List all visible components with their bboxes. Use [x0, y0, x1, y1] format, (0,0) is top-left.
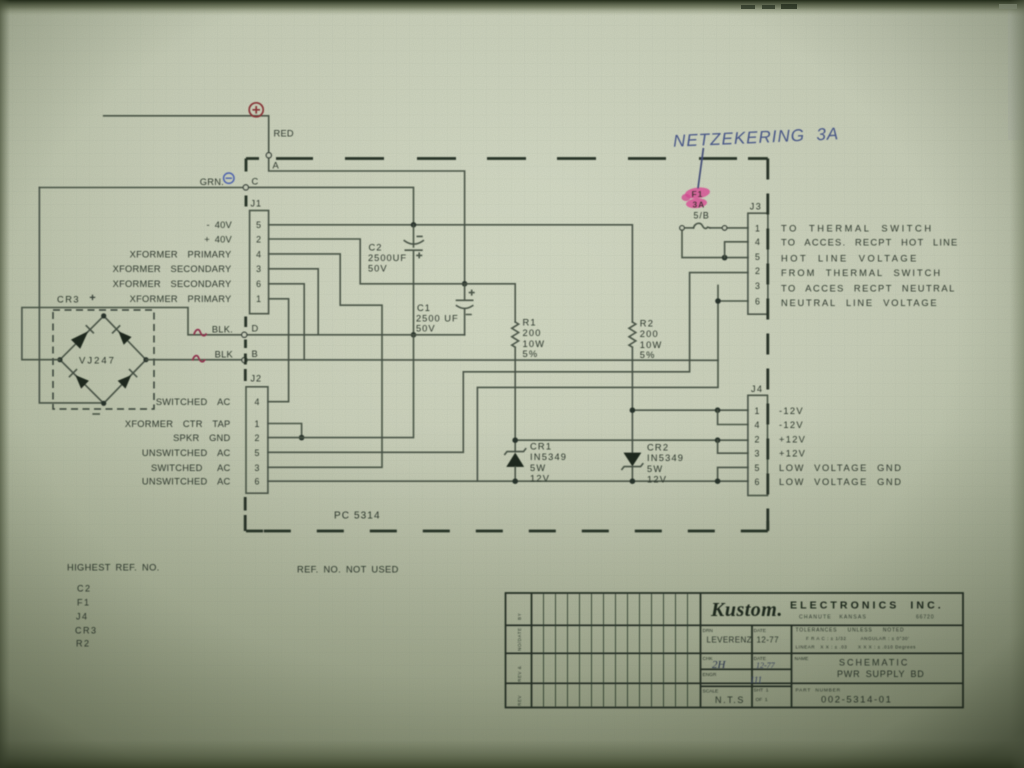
- diode CR3 upper-left: [71, 326, 93, 349]
- connector J1: [250, 199, 269, 314]
- bridge vertex dots: [101, 313, 106, 318]
- squiggle B (red pen): [193, 356, 206, 362]
- junction C1 top: [462, 281, 468, 287]
- label CR3 minus: [93, 413, 99, 415]
- wire: J1 pin4 to J2 pin3: [268, 254, 382, 467]
- board outline dashed border right: [766, 159, 769, 532]
- diode CR3 upper-right: [113, 326, 132, 345]
- wire: J2 pin5 riser and AC rail: [268, 273, 748, 453]
- label CR2 value: [647, 443, 684, 485]
- node A: [266, 153, 271, 158]
- cell tolerances: [796, 628, 917, 650]
- zener diode CR2: [622, 453, 643, 482]
- label CR3 plus: [90, 295, 95, 300]
- diode CR3 lower-left: [70, 370, 89, 389]
- cell NAME SCHEMATIC: [795, 656, 925, 679]
- connector J3: [748, 202, 768, 315]
- cell DATE 12-77: [754, 628, 780, 645]
- label R2 value: [640, 319, 663, 361]
- capacitor C2: [404, 225, 423, 335]
- wire: J3 pin6 to neutral riser: [718, 300, 748, 302]
- junction CR2 gnd: [630, 478, 636, 484]
- wire: J3 pin4 riser: [725, 242, 748, 258]
- wire: J2 pin2 SPKR GND line: [268, 335, 414, 438]
- junction C2 top: [411, 222, 417, 228]
- wire: fuse drop to J3 pin5: [682, 230, 748, 257]
- fuse F1: [680, 223, 748, 230]
- highlight F1 (pink marker): [682, 186, 711, 209]
- node + (RED positive terminal): [249, 103, 263, 117]
- bridge CR3 diamond: [60, 316, 146, 403]
- title block side strip vertical text: [517, 613, 522, 706]
- title block revisions grid: [544, 593, 688, 708]
- wire: J1 pin3 to D line: [269, 269, 319, 334]
- J4 pin labels: [779, 406, 903, 487]
- J3 pin labels: [781, 223, 958, 308]
- wire: J2 pin1 to SPKR GND: [268, 424, 302, 438]
- cell DRN LEVERENZ: [703, 628, 752, 645]
- junction gnd risers: [715, 478, 721, 484]
- handwriting pointer stroke: [698, 148, 703, 189]
- resistor R1: [512, 322, 519, 452]
- diode CR3 lower-right: [118, 370, 137, 389]
- zener diode CR1: [505, 449, 526, 481]
- cell SHT: [754, 688, 769, 704]
- node B: [242, 358, 247, 363]
- junction pin1/pin2: [299, 435, 305, 441]
- wire: J1 pin6 to B line: [269, 284, 305, 360]
- wire: +12V line: [515, 439, 748, 441]
- connector J2: [246, 374, 268, 494]
- board outline dashed border left: [244, 159, 248, 532]
- junction +12V risers: [715, 437, 721, 443]
- cell CHK 2H: [703, 656, 727, 671]
- board outline dashed border bottom: [246, 530, 768, 533]
- wire: J4 pin5 riser: [718, 467, 748, 481]
- node C: [243, 185, 248, 190]
- wire: J2 pin6 / low voltage gnd rail: [268, 480, 748, 482]
- wire: bridge left vertex loop to D pad: [22, 308, 465, 360]
- label CR1 value: [530, 442, 567, 484]
- label R1 value: [523, 318, 546, 360]
- wire: B net drop to pin6 rail: [477, 285, 718, 481]
- wire: B line bridge right vertex to J3 riser: [146, 359, 718, 362]
- title block outer frame: [506, 593, 964, 708]
- wire: +40V RED rail from bridge top to node A: [104, 116, 465, 283]
- cell SCALE NTS: [703, 689, 746, 706]
- junction CR1 gnd: [512, 478, 518, 484]
- J2 pin labels: [125, 397, 231, 487]
- board outline dashed border corner bottom-right: [766, 521, 769, 531]
- capacitor C1: [457, 284, 474, 335]
- node - (GRN negative terminal, blue): [224, 173, 234, 183]
- wire: J4 pin3 riser: [718, 440, 748, 453]
- wire: J1 pin2 +40V: [269, 239, 463, 284]
- junction J3 pin4/pin5: [722, 255, 728, 261]
- wire: J1 pin1 to J2 pin4: [268, 299, 289, 402]
- wire: J4 pin4 riser: [718, 410, 748, 424]
- wire: GRN line node C: [39, 187, 413, 224]
- junction neutral riser: [715, 298, 721, 304]
- cell DATE handwritten: [754, 656, 776, 670]
- junction R2/CR2: [630, 407, 636, 413]
- wire: +40V to R1 top: [465, 284, 516, 322]
- connector J4: [748, 384, 768, 496]
- node D: [242, 332, 247, 337]
- resistor R2: [629, 322, 636, 453]
- board outline dashed border top: [246, 157, 768, 160]
- junction -12V risers: [715, 407, 721, 413]
- J1 pin labels: [113, 220, 233, 304]
- cell ENGR: [703, 672, 763, 685]
- wire: -40V rail J1 pin5 to R2: [269, 225, 633, 322]
- junction C2 bottom / D line: [411, 332, 417, 338]
- wire: -12V line: [632, 409, 748, 411]
- squiggle D (red pen): [194, 330, 207, 336]
- bridge rectifier CR3 dashed box: [53, 310, 154, 409]
- cell PART NUMBER: [796, 688, 893, 706]
- wire: GRN riser to bridge bottom: [39, 188, 101, 403]
- junction R1/CR1: [512, 437, 518, 443]
